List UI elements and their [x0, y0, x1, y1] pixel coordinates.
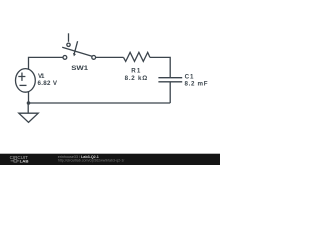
svg-text:8.2 mF: 8.2 mF [185, 81, 208, 88]
svg-text:SW1: SW1 [71, 65, 88, 71]
svg-text:R1: R1 [131, 68, 141, 75]
svg-text:C1: C1 [185, 74, 194, 81]
svg-text:6.82 V: 6.82 V [38, 80, 58, 87]
svg-text:8.2 kΩ: 8.2 kΩ [125, 75, 148, 82]
svg-text:http://circuitlab.com/c/p562ww: http://circuitlab.com/c/p562ww9/lab3-q2-… [58, 158, 125, 163]
svg-text:LAB: LAB [20, 158, 29, 163]
svg-text:V1: V1 [38, 73, 45, 80]
